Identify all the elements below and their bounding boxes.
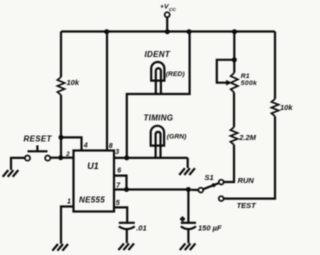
node pin4 tee — [59, 135, 64, 140]
wire pin6 — [114, 176, 127, 190]
ground timing — [179, 168, 195, 175]
wire: tee down to reset row — [60, 137, 62, 157]
capacitor 150uF polarized — [180, 217, 196, 244]
wire pin8 from rail — [106, 32, 108, 151]
wire: RUN contact elbow up to 2.2M — [224, 145, 234, 182]
ground reset — [3, 170, 19, 177]
svg-text:3: 3 — [115, 149, 119, 156]
node rail/R1 — [232, 29, 237, 34]
IC U1 NE555 — [74, 151, 115, 212]
svg-text:.01: .01 — [136, 223, 146, 232]
svg-text:1: 1 — [67, 199, 71, 206]
node rail/ident lamp — [187, 29, 192, 34]
svg-text:TEST: TEST — [237, 201, 258, 210]
potentiometer R1 500k — [231, 73, 238, 93]
resistor 2.2M — [230, 127, 237, 145]
wire: pin7 node down to 150uF — [187, 190, 189, 223]
svg-text:IDENT: IDENT — [145, 50, 171, 59]
svg-text:S1: S1 — [205, 173, 214, 182]
resistor 10k (left) — [57, 77, 64, 95]
lamp IDENT (RED) envelope — [151, 62, 164, 81]
svg-text:8: 8 — [109, 143, 113, 150]
wire: rail down to ident lamp row — [127, 32, 190, 158]
node pin7/cap/switch — [186, 187, 191, 192]
svg-text:2: 2 — [65, 152, 70, 158]
node pin6/pin7 — [124, 187, 129, 192]
wire pin2 — [61, 157, 74, 159]
ground cap 150uF — [180, 243, 196, 250]
wire: reset right contact to pin2 node — [50, 157, 58, 159]
svg-text:5: 5 — [116, 200, 120, 207]
wire: R1 top to rail — [233, 32, 235, 73]
svg-text:150 µF: 150 µF — [198, 223, 222, 232]
svg-text:500k: 500k — [241, 80, 258, 87]
wire: R1 rheostat loop with wiper arrow — [217, 60, 235, 83]
node rail/Vcc — [165, 29, 170, 34]
svg-text:6: 6 — [117, 168, 121, 175]
wire pin4 — [61, 137, 82, 150]
lamp TIMING (GRN) envelope — [151, 126, 164, 146]
svg-text:10k: 10k — [67, 78, 80, 87]
top +Vcc rail — [61, 30, 275, 32]
wire pin1 to ground — [61, 207, 74, 244]
wire: rail right end down to 10k — [274, 32, 276, 100]
wire pin7 — [114, 188, 188, 190]
ground pin1 — [52, 244, 68, 251]
node pin3 — [124, 155, 129, 160]
lamp TIMING (GRN) filament — [156, 132, 161, 158]
svg-text:U1: U1 — [87, 161, 99, 171]
capacitor .01 — [119, 223, 135, 243]
label +Vcc — [160, 4, 176, 13]
svg-text:(GRN): (GRN) — [167, 133, 187, 140]
svg-text:R1: R1 — [241, 73, 250, 80]
lamp IDENT (RED) filament — [156, 68, 161, 94]
wire pin5 — [114, 207, 127, 222]
terminal +Vcc — [165, 12, 170, 31]
wire: reset left contact to ground — [11, 158, 25, 170]
wire: 10k to reset node — [60, 95, 62, 137]
wire: left branch from rail to 10k — [60, 32, 62, 78]
wire: 2.2M top to R1 bottom — [233, 93, 235, 128]
svg-text:CC: CC — [169, 7, 176, 13]
resistor 10k (right) — [271, 99, 278, 116]
pin number labels — [65, 143, 121, 207]
svg-text:(RED): (RED) — [166, 71, 186, 78]
ground cap .01 — [118, 243, 134, 250]
node reset/pin2 junction — [58, 155, 63, 160]
node R1 wiper loop top — [232, 57, 237, 62]
svg-text:4: 4 — [83, 143, 88, 150]
wire pin3 to timing lamp and ground — [114, 158, 188, 168]
svg-text:2.2M: 2.2M — [238, 133, 256, 142]
wire: 10k down, across to TEST contact — [224, 116, 275, 198]
svg-text:TIMING: TIMING — [144, 113, 174, 122]
svg-text:RESET: RESET — [24, 134, 53, 143]
node rail/pin8 — [104, 29, 109, 34]
svg-text:RUN: RUN — [238, 176, 255, 185]
svg-text:10k: 10k — [280, 103, 293, 112]
svg-text:NE555: NE555 — [79, 195, 105, 204]
switch RESET pushbutton — [25, 145, 50, 160]
